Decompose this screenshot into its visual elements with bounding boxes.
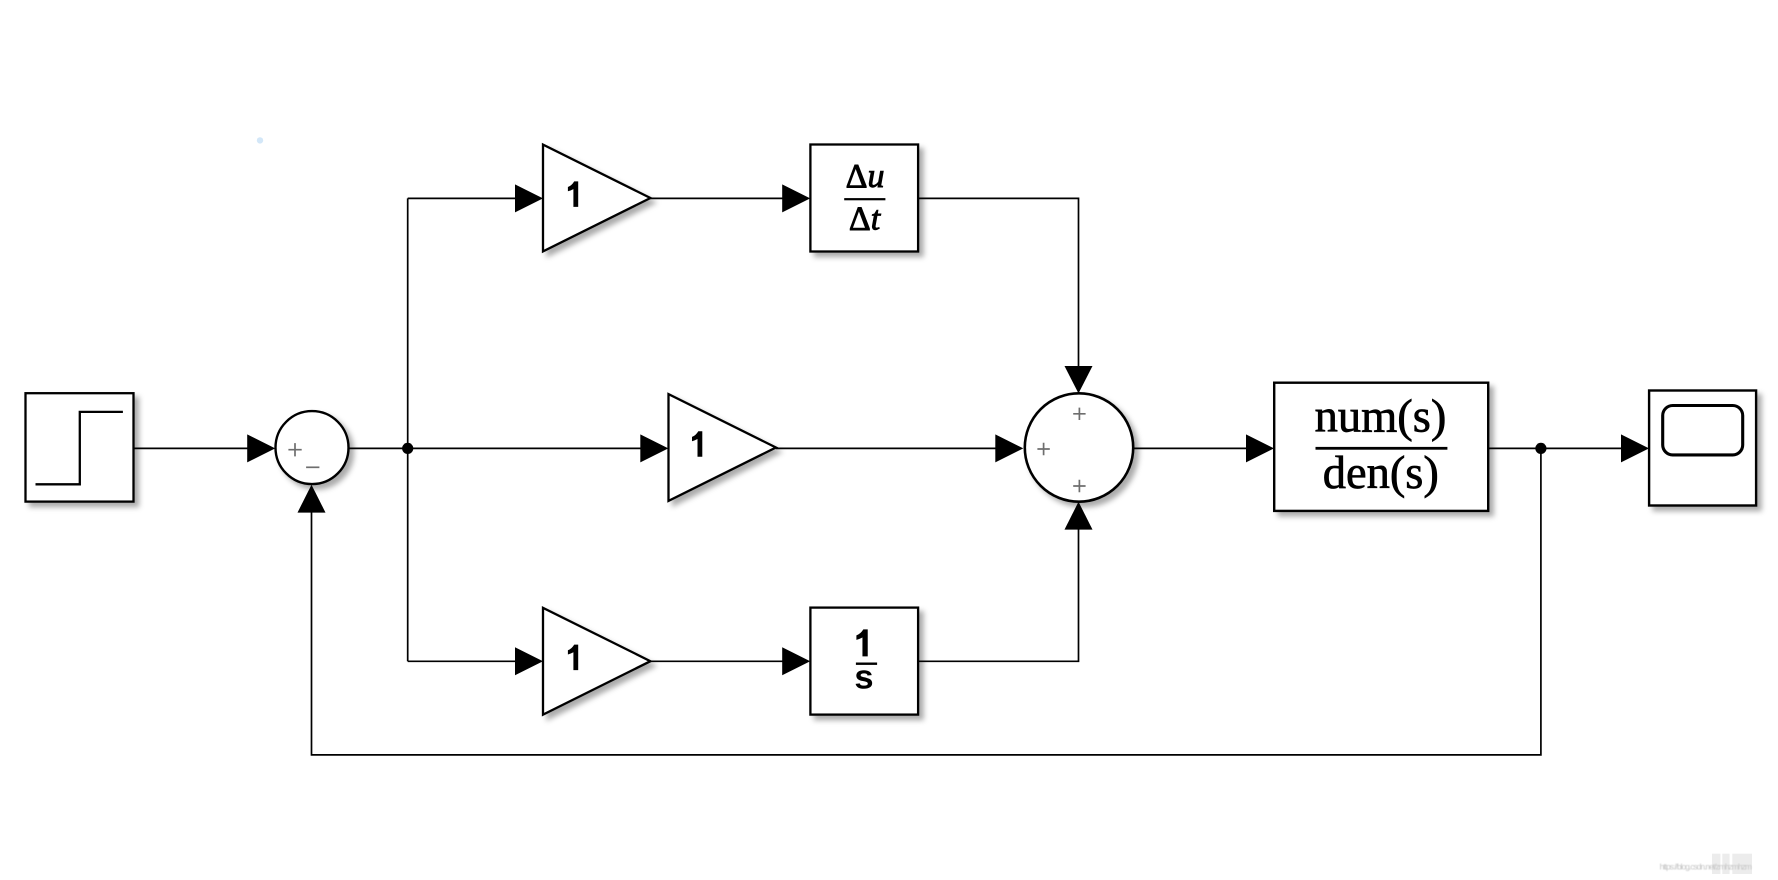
svg-text:Δu: Δu xyxy=(846,158,885,195)
svg-text:s: s xyxy=(854,659,873,697)
svg-text:Δt: Δt xyxy=(849,200,882,237)
svg-text:һttpsː//blog.csdn.net/zmhzmhzm: һttpsː//blog.csdn.net/zmhzmhzm xyxy=(1660,861,1752,871)
svg-text:num(s): num(s) xyxy=(1315,392,1447,443)
svg-text:den(s): den(s) xyxy=(1323,448,1439,499)
